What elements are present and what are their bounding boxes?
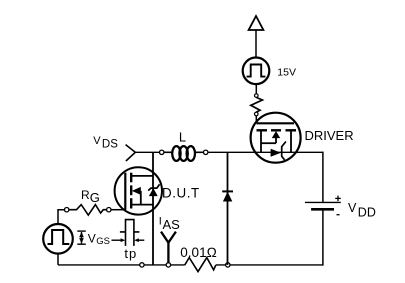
annotation VGS amplitude double arrow <box>77 231 86 244</box>
svg-text:V: V <box>93 135 101 147</box>
svg-text:V: V <box>88 231 96 245</box>
wire VDD branch upper <box>322 152 324 203</box>
wire bottom rail right <box>216 264 323 266</box>
pulse waveform glyph in generator <box>48 230 70 244</box>
node circle at IAS probe base <box>166 263 170 267</box>
label tp <box>124 246 136 261</box>
svg-text:D.U.T: D.U.T <box>162 186 200 201</box>
diode body zener of D.U.T <box>148 184 159 196</box>
wire clamp diode branch <box>227 152 229 265</box>
inductor L coil <box>164 146 204 161</box>
svg-text:15V: 15V <box>277 67 296 79</box>
probe arrow VDS <box>126 145 136 161</box>
transistor DRIVER drain stem <box>260 130 262 152</box>
wire pulse generator top lead <box>58 210 65 225</box>
source 15V pulse circle <box>243 58 270 85</box>
label VDD <box>348 201 376 220</box>
resistor RG <box>65 205 112 216</box>
svg-text:R: R <box>81 188 90 202</box>
annotation tp pulse width arrows and pulse glyph <box>112 220 145 246</box>
svg-text:p: p <box>129 246 136 261</box>
transistor DRIVER channel segments <box>257 129 297 131</box>
supply arrow up symbol <box>249 16 264 30</box>
svg-text:AS: AS <box>163 217 181 232</box>
svg-text:I: I <box>159 216 162 228</box>
node circle at clamp diode anode <box>226 263 230 267</box>
transistor DRIVER circle <box>251 113 301 163</box>
diode body zener of DRIVER <box>271 142 286 160</box>
node terminal circle inductor left <box>160 150 164 154</box>
transistor D.U.T gate bar <box>124 173 126 210</box>
wire top node right (inductor right terminal to VDD branch corner) <box>208 151 323 153</box>
transistor D.U.T channel segments <box>130 173 132 209</box>
wire DUT drain-source rail <box>152 152 154 265</box>
node VDS label <box>93 135 118 150</box>
svg-text:0.01Ω: 0.01Ω <box>180 245 217 260</box>
svg-text:G: G <box>90 190 100 205</box>
transistor DRIVER gate lead <box>255 116 257 124</box>
svg-text:t: t <box>124 246 128 261</box>
battery minus sign <box>337 214 340 216</box>
transistor D.U.T drain stub <box>131 175 153 177</box>
svg-text:DRIVER: DRIVER <box>305 128 354 143</box>
wire supply arrow to 15V source <box>255 30 257 58</box>
transistor D.U.T circle <box>115 167 162 214</box>
node circle gate resistor bottom <box>254 112 258 116</box>
svg-text:V: V <box>348 201 357 215</box>
battery plus sign <box>335 196 341 202</box>
wire top node left (VDS arrow to inductor left terminal) <box>135 151 160 153</box>
wire gate lead from RG to DUT gate <box>111 209 126 211</box>
diode clamp <box>222 191 233 201</box>
wire pulse generator bottom lead <box>57 254 59 265</box>
svg-text:GS: GS <box>96 236 110 247</box>
source pulse generator circle <box>43 224 73 254</box>
resistor driver gate zigzag <box>251 97 263 112</box>
transistor DRIVER source stem <box>290 130 292 152</box>
node terminal circle inductor right <box>204 150 208 154</box>
transistor DRIVER gate bar <box>257 122 295 124</box>
label VGS <box>88 231 110 247</box>
wire VDD branch lower <box>322 209 324 265</box>
label RG <box>81 188 100 205</box>
wire 15V source to gate resistor <box>255 84 257 94</box>
node circle on rail left of DUT source <box>140 263 144 267</box>
svg-text:DS: DS <box>102 138 118 150</box>
wire bottom rail left <box>58 264 185 266</box>
probe IAS current arrow <box>161 232 176 263</box>
svg-text:DD: DD <box>358 206 376 220</box>
transistor D.U.T source stub <box>131 204 154 206</box>
svg-text:L: L <box>179 129 186 144</box>
pulse waveform glyph in 15V source <box>247 65 266 77</box>
transistor D.U.T body arrow <box>132 187 141 205</box>
resistor 0.01 ohm zigzag <box>185 258 216 272</box>
node circle gate resistor top <box>254 94 258 98</box>
battery VDD plates <box>305 202 341 209</box>
transistor DRIVER body arrow <box>261 131 280 143</box>
label IAS <box>159 216 180 232</box>
